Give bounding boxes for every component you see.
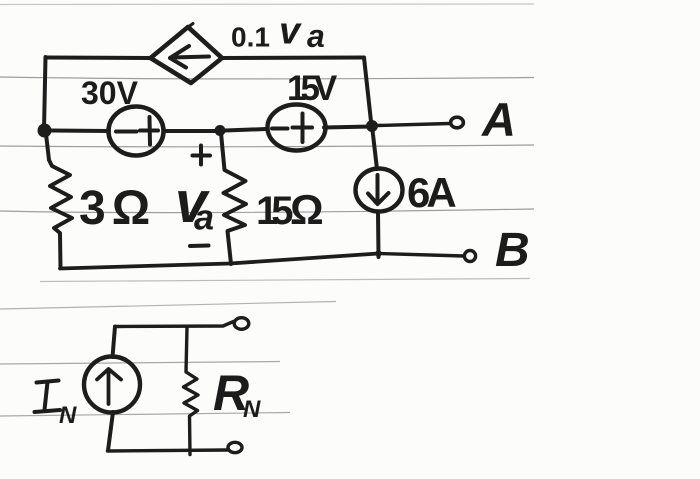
wire: V1 to middle node [164,129,219,133]
dependent source: diamond 0.1Va [151,27,223,83]
label: RN [213,365,261,423]
IN arrow (up) [97,369,121,404]
wire: Norton left vertical bottom [108,412,113,451]
resistor RN (zigzag branch) [184,327,199,455]
wire: left node to V1 [50,129,109,134]
label: 15-ohm [256,186,324,233]
svg-text:A: A [481,93,516,146]
V2 polarity marks [272,114,312,143]
svg-text:0.1: 0.1 [231,22,270,53]
junction at B branch [375,250,381,256]
svg-text:v: v [279,11,302,53]
minus mark of Va [190,244,209,249]
wire: right node down to 6A source [372,126,377,169]
I1 arrow (down) [368,175,389,204]
wire: 6A source to bottom junction [376,212,381,258]
terminal B (open circle) [464,251,475,262]
svg-text:15V: 15V [287,69,338,108]
terminal: Norton top-right (open circle) [234,318,249,330]
resistor R1 3-ohm (zigzag branch) [46,134,72,268]
resistor R2 15-ohm (zigzag branch) [221,133,246,264]
V1 polarity marks [116,117,158,145]
svg-text:Ω: Ω [290,186,324,233]
plus mark of Va [193,146,211,165]
label: Va (controlling voltage) [175,170,214,238]
wire: V2 to right node [324,127,372,128]
wire: stub to terminal B [380,254,464,257]
label IN: hand-drawn I strokes [35,381,61,413]
arrow inside dependent source (points left) [170,46,209,68]
wire: stub to terminal A [377,124,450,126]
current source IN (circle) [84,357,140,413]
wire: bottom horizontal [60,254,379,269]
svg-text:B: B [495,224,530,277]
wire: Norton left vertical top [113,327,116,358]
node: middle node (top of 15-ohm) [215,125,226,136]
current source I1 6A (circle) [356,169,403,212]
node: left node (top of 3-ohm) [38,124,52,138]
svg-text:6A: 6A [407,169,456,216]
svg-text:N: N [59,402,77,429]
svg-text:N: N [243,396,261,423]
svg-text:30V: 30V [81,75,139,111]
wire: right branch vertical top [364,58,372,127]
label: 0.1Va (dependent source value) [231,11,325,55]
wire: Norton top horizontal [115,322,234,327]
voltage source V1 30V (circle) [109,107,164,156]
terminal: Norton bottom-right (open circle) [228,442,242,452]
wire: middle node to V2 [225,129,266,131]
svg-text:a: a [194,197,214,238]
svg-text:3Ω: 3Ω [79,182,156,235]
terminal A (open circle) [451,117,464,128]
node: right node (terminal A branch) [366,120,378,132]
svg-text:a: a [307,18,325,54]
voltage source V2 15V (circle) [268,105,326,151]
wire: top-left horizontal [46,56,151,61]
wire: Norton bottom horizontal [108,450,229,451]
wire: left vertical [44,57,46,130]
wire: top horizontal to right branch [222,56,364,61]
